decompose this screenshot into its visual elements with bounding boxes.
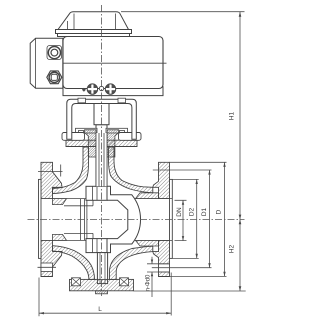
svg-text:H2: H2 (229, 244, 236, 253)
svg-text:D2: D2 (189, 207, 196, 216)
svg-text:n-Φd0: n-Φd0 (146, 274, 152, 291)
svg-text:D: D (216, 209, 223, 214)
svg-text:L: L (98, 306, 102, 313)
svg-text:DN: DN (176, 207, 183, 217)
svg-text:D1: D1 (201, 207, 208, 216)
svg-text:H1: H1 (229, 111, 236, 120)
